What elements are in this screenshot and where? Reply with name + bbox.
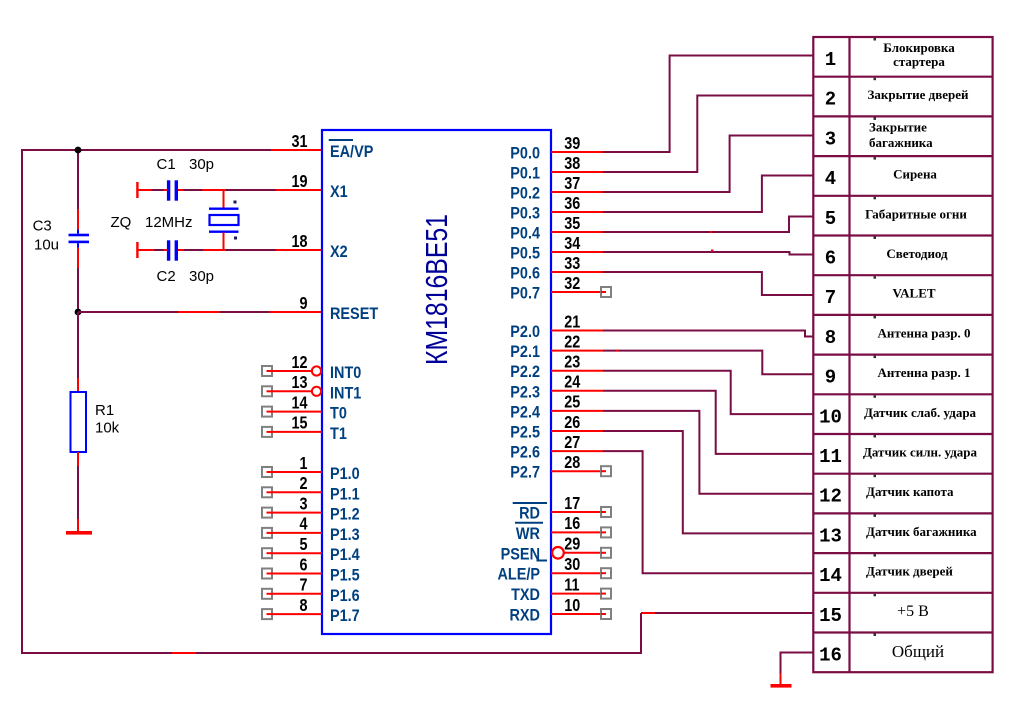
wire C2 left lead bbox=[154, 249, 164, 251]
svg-text:C1: C1 bbox=[157, 156, 176, 173]
pin T1 red stub bbox=[272, 431, 322, 433]
svg-text:P1.1: P1.1 bbox=[330, 485, 360, 503]
svg-text:P0.4: P0.4 bbox=[510, 224, 540, 242]
pin P1.4 red stub bbox=[272, 552, 322, 554]
svg-text:P2.7: P2.7 bbox=[510, 464, 540, 482]
svg-text:19: 19 bbox=[291, 171, 307, 191]
wire C1 left lead red2 bbox=[164, 189, 168, 191]
svg-text:Датчик дверей: Датчик дверей bbox=[866, 564, 953, 579]
pin 16 open square bbox=[601, 527, 611, 537]
pin 1 open square bbox=[262, 467, 272, 477]
svg-text:P1.7: P1.7 bbox=[330, 607, 360, 625]
svg-text:12MHz: 12MHz bbox=[145, 214, 193, 231]
pin 36 P0.3 red stub bbox=[551, 211, 603, 213]
svg-text:R1: R1 bbox=[95, 402, 114, 419]
pin 32 P0.7 open square bbox=[601, 287, 611, 297]
svg-text:14: 14 bbox=[291, 393, 307, 413]
svg-text:13: 13 bbox=[291, 373, 307, 393]
svg-text:RXD: RXD bbox=[510, 606, 540, 624]
wire RESET rail bbox=[78, 311, 178, 313]
svg-text:16: 16 bbox=[819, 645, 842, 667]
wire C2 left lead red bbox=[137, 249, 154, 251]
svg-text:RESET: RESET bbox=[330, 305, 378, 323]
capacitor C1 left terminal tick bbox=[136, 182, 138, 198]
svg-text:7: 7 bbox=[299, 575, 307, 595]
svg-text:Датчик силн. удара: Датчик силн. удара bbox=[863, 445, 978, 460]
wire C1 right lead red2 bbox=[202, 189, 226, 191]
pin 31 EA/VP red stub bbox=[272, 149, 322, 151]
pin 28 P2.7 red stub bbox=[551, 470, 603, 472]
svg-text:Сирена: Сирена bbox=[893, 167, 937, 182]
svg-text:17: 17 bbox=[564, 493, 580, 513]
pin 35 P0.4 red stub bbox=[551, 231, 603, 233]
svg-text:11: 11 bbox=[564, 575, 579, 595]
svg-text:Датчик капота: Датчик капота bbox=[866, 484, 954, 499]
svg-text:C3: C3 bbox=[33, 218, 52, 235]
svg-text:6: 6 bbox=[825, 248, 836, 270]
pin PSEN underline bbox=[537, 560, 548, 562]
svg-text:EA/VP: EA/VP bbox=[330, 143, 373, 161]
svg-text:P2.0: P2.0 bbox=[510, 323, 540, 341]
svg-text:21: 21 bbox=[564, 312, 580, 332]
svg-text:WR: WR bbox=[516, 525, 541, 543]
svg-text:36: 36 bbox=[564, 193, 580, 213]
svg-text:30p: 30p bbox=[189, 156, 214, 173]
svg-text:10u: 10u bbox=[34, 236, 59, 253]
svg-text:32: 32 bbox=[564, 273, 580, 293]
wire R1 upper lead bbox=[77, 312, 79, 378]
svg-text:X2: X2 bbox=[330, 243, 348, 261]
crystal corner dot top bbox=[234, 201, 237, 204]
pin 7 open square bbox=[262, 589, 272, 599]
svg-text:8: 8 bbox=[825, 327, 836, 349]
svg-text:15: 15 bbox=[291, 413, 307, 433]
pin 15 open square bbox=[262, 427, 272, 437]
capacitor C1 bbox=[167, 180, 178, 200]
pin 17 open square bbox=[601, 507, 611, 517]
pin PSEN inversion bubble bbox=[552, 547, 564, 559]
op IC U1 KM1816BE51 body bbox=[322, 130, 551, 634]
wire net P0.1 to row2 bbox=[603, 96, 813, 173]
ground GND1 bbox=[66, 531, 92, 535]
wire crystal upper connection bbox=[223, 190, 225, 209]
svg-text:P0.2: P0.2 bbox=[510, 184, 540, 202]
svg-text:6: 6 bbox=[299, 555, 307, 575]
svg-text:Датчик слаб. удара: Датчик слаб. удара bbox=[864, 405, 977, 420]
svg-text:38: 38 bbox=[564, 153, 580, 173]
svg-text:P0.3: P0.3 bbox=[510, 204, 540, 222]
svg-text:24: 24 bbox=[564, 372, 580, 392]
wire C1 left lead red bbox=[137, 189, 152, 191]
wire +5V top rail bbox=[21, 149, 272, 151]
wire red fleck row6 bbox=[711, 250, 713, 252]
svg-text:5: 5 bbox=[299, 535, 307, 555]
wire red fleck row5 bbox=[710, 231, 712, 233]
pin INT0 inversion bubble bbox=[312, 366, 321, 375]
wire C3 lower lead red segment bbox=[77, 248, 79, 268]
pin 6 open square bbox=[262, 569, 272, 579]
svg-text:Светодиод: Светодиод bbox=[886, 246, 948, 261]
pin 2 open square bbox=[262, 487, 272, 497]
svg-text:P2.6: P2.6 bbox=[510, 444, 540, 462]
svg-text:9: 9 bbox=[825, 367, 836, 389]
pin 5 open square bbox=[262, 548, 272, 558]
svg-text:11: 11 bbox=[819, 446, 842, 468]
crystal corner dot bottom bbox=[234, 237, 237, 240]
wire X1 net bbox=[226, 189, 276, 191]
svg-text:Общий: Общий bbox=[892, 642, 944, 661]
pin 10 RXD red stub bbox=[551, 613, 601, 615]
wire net P0.6 to row7 bbox=[603, 272, 813, 295]
svg-text:1: 1 bbox=[299, 453, 307, 473]
svg-text:P2.3: P2.3 bbox=[510, 383, 540, 401]
pin INT1 red stub bbox=[272, 390, 312, 392]
wire red fleck row9 bbox=[616, 350, 618, 352]
svg-text:7: 7 bbox=[825, 287, 836, 309]
svg-text:27: 27 bbox=[564, 432, 580, 452]
junction dot RESET rail / C3 bbox=[75, 309, 82, 316]
pin P1.1 red stub bbox=[272, 491, 322, 493]
svg-text:4: 4 bbox=[825, 168, 836, 190]
pin RD overline bbox=[513, 502, 547, 504]
pin P1.7 red stub bbox=[272, 613, 322, 615]
pin 33 P0.6 red stub bbox=[551, 271, 603, 273]
svg-text:P1.0: P1.0 bbox=[330, 465, 360, 483]
pin P1.0 red stub bbox=[272, 471, 322, 473]
svg-text:P0.6: P0.6 bbox=[510, 264, 540, 282]
svg-text:P2.4: P2.4 bbox=[510, 403, 540, 421]
svg-text:ZQ: ZQ bbox=[111, 214, 132, 231]
svg-text:P0.7: P0.7 bbox=[510, 284, 540, 302]
wire C2 left lead red2 bbox=[164, 249, 168, 251]
wire net P2.1 to row9 bbox=[603, 351, 813, 375]
svg-text:13: 13 bbox=[819, 525, 842, 547]
junction dot top rail / C3 bbox=[75, 147, 82, 154]
svg-text:P0.1: P0.1 bbox=[510, 164, 540, 182]
svg-text:P2.2: P2.2 bbox=[510, 363, 540, 381]
svg-text:Закрытие: Закрытие bbox=[869, 119, 927, 134]
svg-text:3: 3 bbox=[825, 128, 836, 150]
svg-text:5: 5 bbox=[825, 208, 836, 230]
pin 30 open square bbox=[601, 568, 611, 578]
svg-text:P1.6: P1.6 bbox=[330, 587, 360, 605]
wire net P2.4 to row12 bbox=[603, 411, 813, 494]
pin P1.6 red stub bbox=[272, 593, 322, 595]
svg-text:P1.2: P1.2 bbox=[330, 506, 360, 524]
svg-text:14: 14 bbox=[819, 565, 842, 587]
wire C3 upper lead red segment bbox=[77, 209, 79, 229]
wire R1 lower lead red segment bbox=[77, 452, 79, 466]
pin 12 open square bbox=[262, 366, 272, 376]
svg-text:16: 16 bbox=[564, 514, 580, 534]
pin 9 RESET red stub bbox=[269, 311, 322, 313]
wire net P0.0 to row1 bbox=[603, 56, 813, 153]
pin 30 ALE/P red stub bbox=[551, 572, 601, 574]
svg-text:10: 10 bbox=[564, 595, 580, 615]
pin 11 TXD red stub bbox=[551, 593, 601, 595]
svg-text:PSEN: PSEN bbox=[501, 545, 540, 563]
capacitor C2 bbox=[167, 240, 178, 260]
svg-text:P1.5: P1.5 bbox=[330, 566, 360, 584]
svg-text:Блокировка: Блокировка bbox=[883, 40, 955, 55]
wire row16 ground red segment bbox=[780, 674, 782, 685]
pin 29 open square bbox=[601, 548, 611, 558]
svg-text:P2.1: P2.1 bbox=[510, 343, 540, 361]
pin P1.3 red stub bbox=[272, 532, 322, 534]
svg-text:3: 3 bbox=[299, 494, 307, 514]
svg-text:Антенна разр. 1: Антенна разр. 1 bbox=[878, 365, 971, 380]
wire to ground red segment bbox=[77, 519, 79, 531]
svg-text:29: 29 bbox=[564, 534, 580, 554]
pin INT0 red stub bbox=[272, 370, 312, 372]
pin 19 X1 red stub bbox=[276, 189, 322, 191]
pin 21 P2.0 red stub bbox=[551, 330, 603, 332]
svg-text:T1: T1 bbox=[330, 425, 347, 443]
ground GND2 bbox=[771, 684, 792, 688]
crystal ZQ bbox=[209, 208, 239, 233]
wire X2 net bbox=[226, 249, 276, 251]
svg-text:INT0: INT0 bbox=[330, 364, 362, 382]
svg-text:Антенна разр. 0: Антенна разр. 0 bbox=[878, 325, 971, 340]
pin 27 P2.6 red stub bbox=[551, 450, 603, 452]
svg-text:35: 35 bbox=[564, 213, 580, 233]
svg-text:ALE/P: ALE/P bbox=[497, 566, 540, 584]
pin P1.2 red stub bbox=[272, 512, 322, 514]
svg-text:23: 23 bbox=[564, 352, 580, 372]
pin EA/VP overline bbox=[329, 139, 353, 141]
pin 24 P2.3 red stub bbox=[551, 390, 603, 392]
pin 10 open square bbox=[601, 609, 611, 619]
svg-text:багажника: багажника bbox=[869, 135, 933, 150]
wire +5V left vertical bbox=[21, 149, 23, 654]
svg-text:39: 39 bbox=[564, 133, 580, 153]
wire C3 lower lead bbox=[77, 268, 79, 312]
pin 37 P0.2 red stub bbox=[551, 191, 603, 193]
svg-text:VALET: VALET bbox=[892, 286, 935, 301]
resistor R1 bbox=[71, 392, 87, 452]
pin 32 P0.7 red stub bbox=[551, 291, 603, 293]
wire RESET rail red segment bbox=[178, 311, 220, 313]
svg-text:34: 34 bbox=[564, 233, 580, 253]
wire C1 right lead bbox=[184, 189, 203, 191]
wire C1 left lead bbox=[152, 189, 164, 191]
wire +5V bottom rail red segment bbox=[172, 652, 196, 654]
wire C2 right lead red bbox=[178, 249, 184, 251]
pin 8 open square bbox=[262, 609, 272, 619]
svg-text:Закрытие дверей: Закрытие дверей bbox=[868, 87, 969, 102]
wire +5V bottom rail bbox=[22, 652, 641, 654]
pin 13 open square bbox=[262, 386, 272, 396]
pin 3 open square bbox=[262, 508, 272, 518]
wire +5V riser to row15 bbox=[640, 613, 642, 654]
svg-text:Датчик багажника: Датчик багажника bbox=[866, 524, 977, 539]
svg-text:22: 22 bbox=[564, 332, 580, 352]
table cell marks bbox=[874, 38, 877, 636]
svg-text:Габаритные огни: Габаритные огни bbox=[865, 206, 967, 221]
svg-text:12: 12 bbox=[819, 486, 842, 508]
wire net P2.2 to row10 bbox=[603, 371, 813, 414]
wire net P2.3 to row11 bbox=[603, 391, 813, 454]
wire net P0.5 to row6 bbox=[603, 252, 813, 255]
svg-text:T0: T0 bbox=[330, 405, 347, 423]
wire C1 right lead red bbox=[178, 189, 184, 191]
pin 23 P2.2 red stub bbox=[551, 370, 603, 372]
svg-text:33: 33 bbox=[564, 253, 580, 273]
svg-text:P1.4: P1.4 bbox=[330, 546, 360, 564]
svg-text:RD: RD bbox=[519, 504, 540, 522]
connector table frame bbox=[813, 37, 992, 672]
pin 28 P2.7 open square bbox=[601, 466, 611, 476]
wire R1 lower lead bbox=[77, 466, 79, 519]
pin 26 P2.5 red stub bbox=[551, 430, 603, 432]
wire crystal lower connection bbox=[223, 233, 225, 251]
wire R1 upper lead red segment bbox=[77, 378, 79, 392]
wire net P0.3 to row4 bbox=[603, 176, 813, 213]
pin WR overline bbox=[515, 522, 543, 524]
svg-text:10: 10 bbox=[819, 406, 842, 428]
svg-text:8: 8 bbox=[299, 595, 307, 615]
pin 16 WR red stub bbox=[551, 531, 601, 533]
pin 25 P2.4 red stub bbox=[551, 410, 603, 412]
pin 39 P0.0 red stub bbox=[551, 151, 603, 153]
pin 4 open square bbox=[262, 528, 272, 538]
svg-text:P0.0: P0.0 bbox=[510, 144, 540, 162]
svg-text:25: 25 bbox=[564, 392, 580, 412]
svg-text:1: 1 bbox=[825, 49, 836, 71]
svg-text:30: 30 bbox=[564, 555, 580, 575]
wire net P2.0 to row8 bbox=[603, 331, 813, 337]
svg-text:P0.5: P0.5 bbox=[510, 244, 540, 262]
wire C3 upper lead bbox=[77, 150, 79, 209]
pin P1.5 red stub bbox=[272, 573, 322, 575]
svg-text:12: 12 bbox=[291, 352, 307, 372]
pin INT1 inversion bubble bbox=[312, 387, 321, 396]
svg-text:28: 28 bbox=[564, 453, 580, 473]
svg-text:INT1: INT1 bbox=[330, 384, 362, 402]
pin 11 open square bbox=[601, 589, 611, 599]
pin T0 red stub bbox=[272, 411, 322, 413]
svg-text:стартера: стартера bbox=[893, 54, 945, 69]
capacitor C3 bbox=[69, 229, 90, 248]
svg-text:30p: 30p bbox=[189, 268, 214, 285]
pin 38 P0.1 red stub bbox=[551, 171, 603, 173]
svg-text:26: 26 bbox=[564, 412, 580, 432]
wire C2 right lead bbox=[184, 249, 203, 251]
svg-text:4: 4 bbox=[299, 514, 307, 534]
pin 17 RD red stub bbox=[551, 511, 601, 513]
wire net P0.2 to row3 bbox=[603, 136, 813, 193]
pin 29 PSEN red stub bbox=[564, 552, 601, 554]
svg-text:10k: 10k bbox=[95, 420, 120, 437]
svg-text:9: 9 bbox=[299, 293, 307, 313]
wire C2 right lead red2 bbox=[203, 249, 226, 251]
wire net P2.6 to row14 bbox=[603, 451, 813, 573]
svg-text:X1: X1 bbox=[330, 183, 348, 201]
svg-text:31: 31 bbox=[291, 131, 307, 151]
wire row16 to ground bbox=[781, 653, 814, 674]
svg-text:P2.5: P2.5 bbox=[510, 423, 540, 441]
wire net P0.4 to row5 bbox=[603, 217, 813, 233]
svg-text:2: 2 bbox=[299, 474, 307, 494]
pin 14 open square bbox=[262, 407, 272, 417]
svg-text:P1.3: P1.3 bbox=[330, 526, 360, 544]
pin 34 P0.5 red stub bbox=[551, 251, 603, 253]
svg-text:2: 2 bbox=[825, 89, 836, 111]
svg-text:15: 15 bbox=[819, 605, 842, 627]
svg-text:TXD: TXD bbox=[511, 586, 540, 604]
svg-text:18: 18 bbox=[291, 231, 307, 251]
pin 22 P2.1 red stub bbox=[551, 350, 603, 352]
capacitor C2 left terminal tick bbox=[136, 242, 138, 258]
svg-text:37: 37 bbox=[564, 173, 580, 193]
wire RESET rail part2 bbox=[220, 311, 269, 313]
pin 18 X2 red stub bbox=[276, 249, 322, 251]
wire +5V red segment near riser bbox=[641, 612, 655, 614]
svg-text:КМ1816ВЕ51: КМ1816ВЕ51 bbox=[419, 214, 453, 365]
wire net P2.5 to row13 bbox=[603, 431, 813, 533]
svg-text:C2: C2 bbox=[157, 268, 176, 285]
wire +5V rail to connector row15 bbox=[641, 612, 813, 614]
svg-text:+5 В: +5 В bbox=[897, 603, 929, 620]
